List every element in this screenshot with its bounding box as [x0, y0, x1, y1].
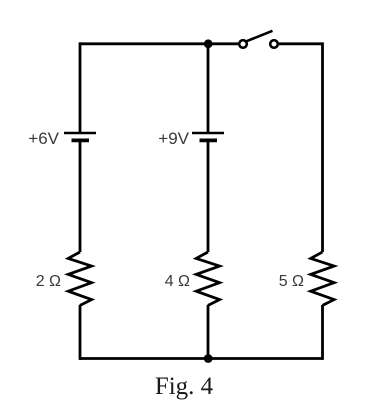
battery B1 +6V long positive plate — [64, 132, 96, 135]
switch S1 right terminal circle — [270, 40, 278, 48]
resistor R3 5 ohm zigzag — [311, 252, 334, 305]
switch S1 left terminal circle — [239, 40, 247, 48]
battery B1 +6V short negative plate — [72, 138, 90, 142]
wire: right branch upper segment (top-right corner to resistor 5ohm top) — [321, 42, 324, 252]
junction dot: bottom node where middle branch meets bottom rail — [204, 354, 213, 363]
junction dot: top node where middle branch meets top rail — [204, 39, 213, 48]
wire: middle branch middle segment (battery bottom to resistor 4ohm top) — [207, 140, 210, 252]
wire: middle branch lower segment (resistor 4ohm bottom to bottom junction) — [207, 305, 210, 359]
resistor R2 4 ohm zigzag — [196, 252, 219, 305]
svg-text:+9V: +9V — [158, 129, 189, 148]
wire: right branch lower segment (resistor 5ohm bottom to bottom-right corner) — [321, 305, 324, 360]
wire: left branch upper segment (top rail to battery +6V top plate) — [79, 42, 82, 132]
battery B2 +9V long positive plate — [192, 132, 224, 135]
wire: top rail right segment from switch right terminal to top-right corner — [279, 42, 323, 45]
svg-text:2 Ω: 2 Ω — [36, 273, 61, 290]
wire: left branch lower segment (resistor 2ohm bottom to bottom rail) — [79, 305, 82, 360]
svg-text:5 Ω: 5 Ω — [279, 273, 304, 290]
battery B2 +9V short negative plate — [200, 138, 218, 142]
wire: middle branch upper segment (top junction to battery +9V top plate) — [207, 44, 210, 132]
wire: left branch middle segment (battery bottom to resistor 2ohm top) — [79, 140, 82, 252]
resistor R1 2 ohm zigzag — [68, 252, 91, 305]
switch S1 lever arm (open) — [247, 31, 273, 41]
svg-text:+6V: +6V — [28, 129, 59, 148]
wire: bottom rail from bottom-left to bottom-right corner — [80, 357, 323, 360]
svg-text:Fig. 4: Fig. 4 — [155, 373, 214, 400]
wire: top rail left segment from top-left corner to switch left terminal — [80, 42, 238, 45]
svg-text:4 Ω: 4 Ω — [165, 273, 190, 290]
